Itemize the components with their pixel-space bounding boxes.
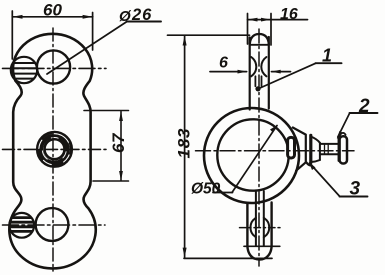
bottom bar bbox=[247, 203, 271, 260]
svg-text:67: 67 bbox=[109, 132, 128, 153]
bolt shank bbox=[320, 144, 338, 154]
bottom pin hatched circle bbox=[9, 213, 34, 238]
bolt hole slot section bbox=[288, 137, 295, 158]
callout 3 bbox=[310, 163, 340, 197]
top bar slot hourglass bbox=[251, 57, 266, 86]
callout 1 bbox=[255, 86, 260, 91]
bottom bar center tick bbox=[240, 227, 281, 229]
c50 label and leader bbox=[232, 126, 277, 193]
svg-text:Ø: Ø bbox=[119, 8, 132, 25]
top bar bbox=[250, 34, 269, 110]
left view vertical center line bbox=[52, 28, 54, 271]
dimension 60 line bbox=[12, 11, 93, 59]
bolt head item 2 bbox=[340, 136, 347, 163]
top lobe horizontal center line bbox=[3, 67, 107, 69]
right boss profile bbox=[293, 128, 306, 171]
bottom bar slot bbox=[251, 191, 270, 246]
dimension 16 bbox=[248, 14, 308, 46]
dimension 183 bbox=[168, 35, 273, 258]
nut item 3 bbox=[307, 135, 320, 165]
bottom bar cross line bbox=[244, 245, 280, 247]
top hole c26 bbox=[37, 50, 70, 83]
callout 2 bbox=[338, 113, 350, 137]
svg-text:2: 2 bbox=[358, 96, 370, 117]
svg-text:183: 183 bbox=[175, 128, 194, 159]
bottom lobe horizontal center line bbox=[3, 224, 106, 226]
middle threaded boss rings bbox=[38, 132, 72, 166]
top pin hatched circle bbox=[11, 57, 37, 83]
svg-text:16: 16 bbox=[280, 6, 298, 23]
right view horizontal center line bbox=[196, 150, 355, 152]
svg-text:60: 60 bbox=[43, 1, 62, 20]
svg-text:1: 1 bbox=[322, 46, 332, 66]
dimension 6 bbox=[210, 71, 291, 73]
svg-text:3: 3 bbox=[350, 179, 361, 200]
bottom hole bbox=[36, 208, 69, 241]
svg-text:Ø50: Ø50 bbox=[191, 181, 221, 198]
svg-text:6: 6 bbox=[219, 55, 228, 72]
left view outline bbox=[9, 34, 95, 269]
bolt washer face bbox=[338, 138, 340, 161]
svg-text:26: 26 bbox=[131, 6, 152, 24]
middle horizontal center line bbox=[3, 148, 107, 150]
ring outer circle bbox=[204, 108, 299, 203]
dimension 67 line bbox=[84, 111, 129, 182]
right view vertical center line bbox=[258, 29, 260, 266]
c26 leader bbox=[47, 22, 127, 75]
ring inner circle c50 bbox=[217, 119, 288, 190]
